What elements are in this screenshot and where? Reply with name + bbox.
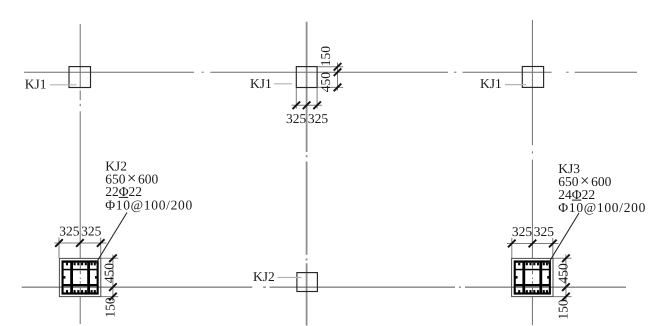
extension lines 450/150 KJ2 detail xyxy=(101,255,118,302)
rebar symbol underline KJ3 xyxy=(572,199,581,201)
svg-text:450: 450 xyxy=(555,263,570,284)
leader KJ1 top-right xyxy=(505,84,526,86)
rebar symbol underline KJ2 xyxy=(119,196,128,198)
leader KJ2 bottom-middle xyxy=(278,277,302,279)
column KJ1 top-left xyxy=(69,67,91,88)
extension lines 450/150 top-middle xyxy=(318,63,344,91)
column section KJ2 (enlarged detail) xyxy=(59,258,100,296)
svg-text:KJ1: KJ1 xyxy=(25,76,47,91)
svg-text:450: 450 xyxy=(318,72,333,93)
ticks 325/325 top-middle xyxy=(293,102,321,110)
svg-text:325: 325 xyxy=(286,111,307,126)
column KJ1 top-middle xyxy=(296,67,317,88)
grid line 2 (bottom horizontal axis) xyxy=(22,286,626,288)
ticks 325/325 KJ2 detail xyxy=(55,239,104,247)
svg-text:Φ10@100/200: Φ10@100/200 xyxy=(105,197,193,212)
leader to KJ2 note xyxy=(95,213,128,266)
leader KJ1 top-middle xyxy=(274,83,292,85)
svg-text:150: 150 xyxy=(103,297,118,318)
column KJ2 bottom-middle xyxy=(297,273,318,292)
svg-text:Φ10@100/200: Φ10@100/200 xyxy=(558,200,646,215)
svg-text:KJ1: KJ1 xyxy=(250,76,272,91)
leader KJ1 top-left xyxy=(50,84,77,86)
svg-text:150: 150 xyxy=(555,299,570,320)
ticks 325/325 KJ3 detail xyxy=(508,240,557,248)
grid line A (left vertical axis) xyxy=(79,24,81,324)
column KJ1 top-right xyxy=(522,67,543,88)
svg-text:325: 325 xyxy=(81,223,102,238)
grid line B (middle vertical axis) xyxy=(306,22,308,326)
extension lines 450/150 KJ3 detail xyxy=(553,255,571,302)
svg-text:325: 325 xyxy=(512,224,533,239)
ticks 450/150 top-middle xyxy=(334,63,342,91)
ticks 450/150 KJ2 detail xyxy=(109,255,117,301)
leader to KJ3 note xyxy=(547,213,579,266)
grid line C (right vertical axis) xyxy=(531,20,533,325)
svg-text:450: 450 xyxy=(101,263,116,284)
grid line 1 (top horizontal axis) xyxy=(24,71,637,73)
extension lines 325/325 KJ2 detail xyxy=(54,238,106,259)
extension lines 325/325 top-middle xyxy=(292,88,322,109)
column section KJ3 (enlarged detail) xyxy=(512,258,553,296)
ticks 450/150 KJ3 detail xyxy=(562,255,570,301)
svg-text:325: 325 xyxy=(308,111,329,126)
svg-text:325: 325 xyxy=(534,224,555,239)
svg-text:KJ1: KJ1 xyxy=(480,76,502,91)
svg-text:150: 150 xyxy=(318,46,333,67)
extension lines 325/325 KJ3 detail xyxy=(507,238,559,258)
svg-text:KJ2: KJ2 xyxy=(253,269,275,284)
svg-text:325: 325 xyxy=(59,223,80,238)
